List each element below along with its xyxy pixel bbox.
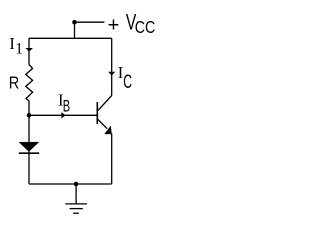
label +VCC [108,10,156,38]
transistor Q1 [97,96,111,129]
wire ground stem [75,184,77,204]
transistor Q1 emitter arrowhead [105,126,112,134]
svg-text:C: C [123,72,132,93]
svg-text:+: + [108,14,120,36]
arrow I1 on left branch [26,48,33,52]
wire collector vertical [111,38,113,95]
wire VCC stub vertical [74,22,76,38]
node ground junction dot [74,182,79,187]
label IB [58,90,70,115]
wire left branch upper [28,38,30,64]
wire VCC feed horizontal [75,21,105,23]
wire bottom rail [29,183,112,185]
ground [65,204,87,213]
label I1 [9,34,23,57]
arrow IC on collector [108,72,115,76]
wire base [29,114,97,116]
diode D1 [19,142,39,153]
wire left branch lower [28,152,30,185]
wire emitter vertical [111,134,113,185]
svg-text:B: B [63,97,70,115]
svg-text:CC: CC [135,17,156,37]
node VCC junction dot [72,20,77,25]
svg-text:1: 1 [15,41,23,58]
node base junction dot [27,113,32,118]
label IC [118,63,132,93]
resistor R [26,65,33,101]
wire top rail [29,37,112,39]
wire left branch middle [28,101,30,142]
svg-text:R: R [9,73,19,93]
svg-text:I: I [9,34,15,53]
arrow IB on base [61,112,65,118]
